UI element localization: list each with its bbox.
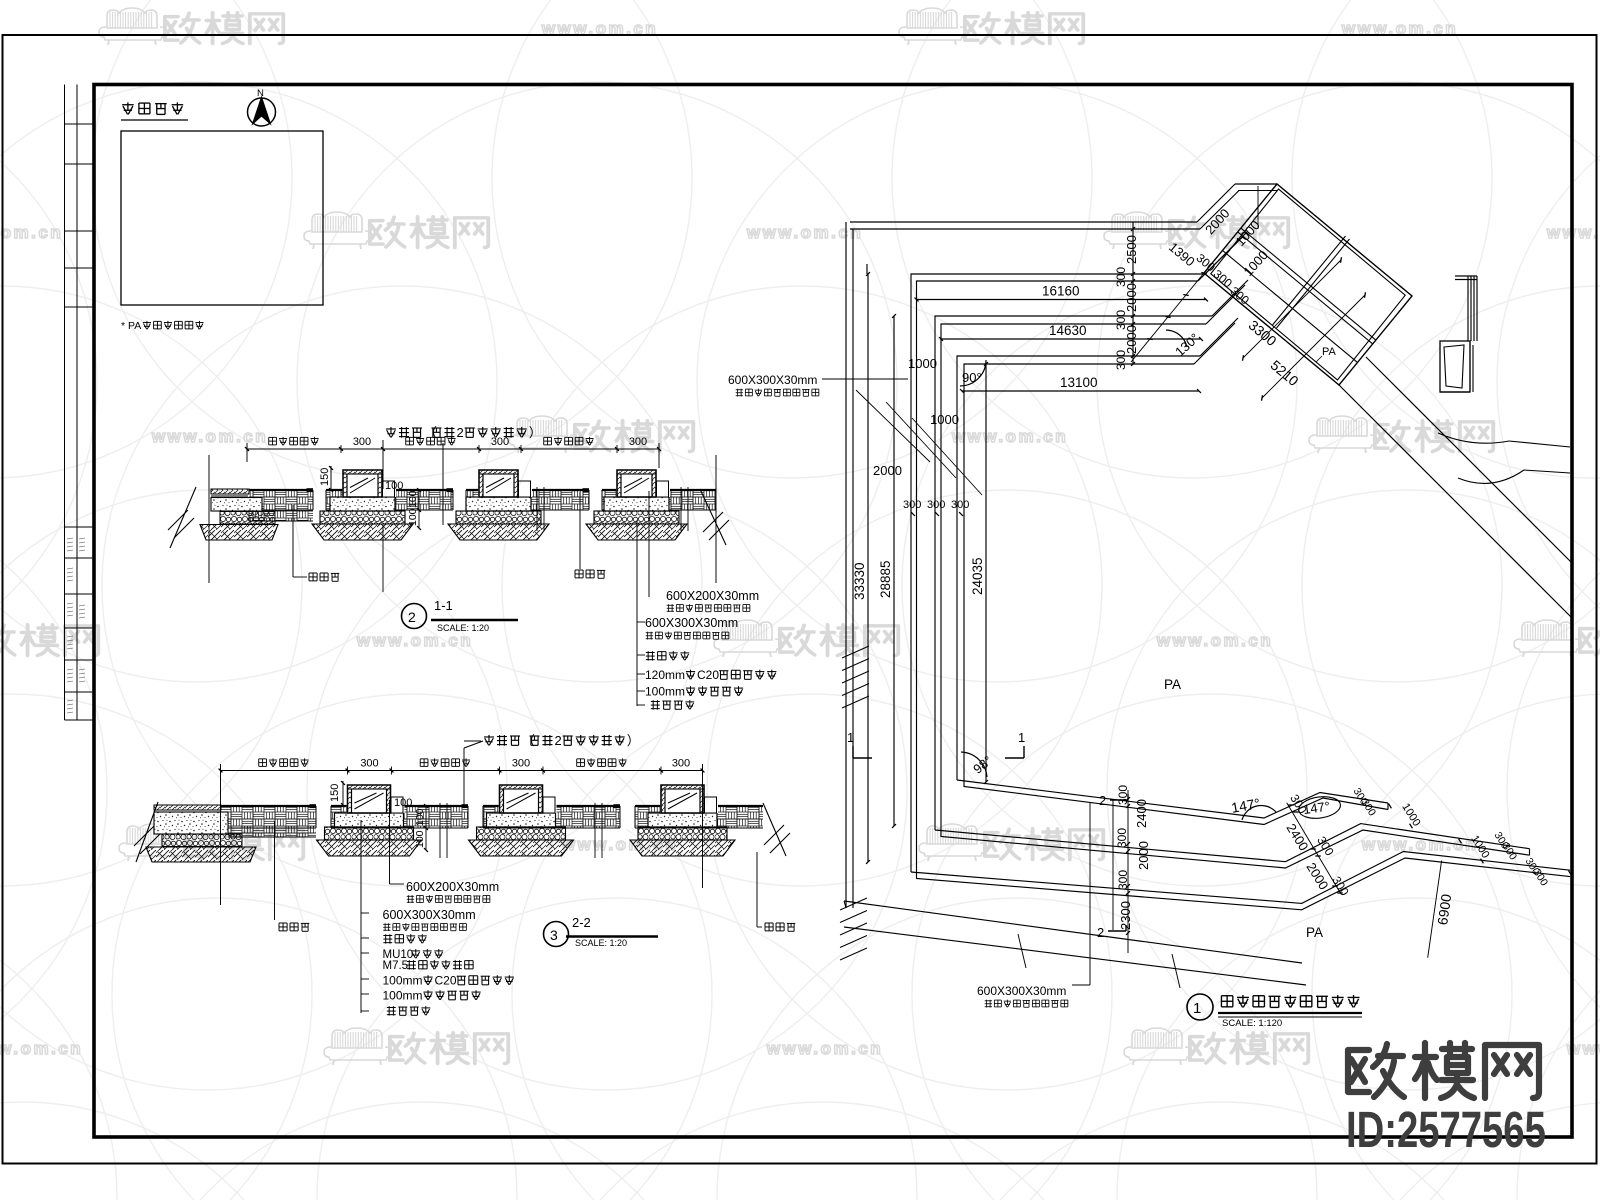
svg-text:300: 300 (1115, 828, 1129, 848)
svg-text:33330: 33330 (852, 562, 867, 600)
svg-text:2000: 2000 (1136, 841, 1151, 870)
svg-text:1: 1 (1018, 730, 1025, 745)
svg-text:28885: 28885 (878, 560, 893, 598)
svg-text:90°: 90° (962, 370, 982, 385)
svg-text:PA: PA (1322, 346, 1337, 358)
svg-text:300: 300 (951, 499, 969, 511)
svg-text:1: 1 (1193, 1000, 1201, 1017)
svg-text:1-1: 1-1 (434, 598, 453, 613)
svg-text:600X300X30mm: 600X300X30mm (383, 908, 476, 922)
svg-text:1: 1 (847, 730, 854, 745)
svg-text:100mm: 100mm (645, 685, 685, 699)
svg-text:2-2: 2-2 (572, 915, 591, 930)
svg-text:www.om.cn: www.om.cn (951, 427, 1068, 446)
svg-text:2: 2 (1097, 925, 1104, 940)
svg-text:300: 300 (1114, 350, 1128, 370)
svg-text:100mm: 100mm (383, 989, 423, 1003)
svg-text:150: 150 (329, 784, 341, 802)
svg-text:300: 300 (672, 758, 690, 770)
svg-text:300: 300 (360, 758, 378, 770)
svg-text:100: 100 (407, 508, 419, 526)
svg-text:100: 100 (385, 480, 403, 492)
svg-text:300: 300 (353, 436, 371, 448)
svg-text:www.om.cn: www.om.cn (151, 427, 268, 446)
svg-text:N: N (257, 88, 264, 99)
svg-text:2000: 2000 (873, 463, 902, 478)
svg-text:ID:2577565: ID:2577565 (1346, 1101, 1546, 1159)
svg-text:2: 2 (457, 425, 464, 440)
svg-text:300: 300 (1114, 310, 1128, 330)
svg-text:100: 100 (394, 797, 412, 809)
svg-text:600X300X30mm: 600X300X30mm (645, 616, 738, 630)
svg-text:www.om.cn: www.om.cn (1156, 631, 1273, 650)
svg-text:24035: 24035 (970, 557, 985, 595)
svg-text:100: 100 (414, 808, 426, 826)
svg-text:1000: 1000 (908, 356, 937, 371)
svg-text:SCALE: 1:20: SCALE: 1:20 (437, 623, 489, 633)
svg-text:www.om.cn: www.om.cn (356, 631, 473, 650)
svg-text:600X300X30mm: 600X300X30mm (728, 373, 817, 387)
svg-text:C20: C20 (697, 668, 719, 682)
svg-text:300: 300 (927, 499, 945, 511)
svg-text:100: 100 (414, 830, 426, 848)
svg-text:）: ） (529, 425, 542, 440)
svg-text:300: 300 (1116, 785, 1130, 805)
svg-text:300: 300 (512, 758, 530, 770)
svg-text:2: 2 (555, 733, 562, 748)
svg-text:300: 300 (903, 499, 921, 511)
svg-text:M7.5: M7.5 (383, 960, 409, 972)
svg-text:300: 300 (491, 436, 509, 448)
svg-text:2400: 2400 (1134, 799, 1149, 828)
svg-text:www.om.cn: www.om.cn (766, 1039, 883, 1058)
svg-text:150: 150 (319, 468, 331, 486)
svg-text:SCALE: 1:120: SCALE: 1:120 (1222, 1018, 1282, 1029)
svg-text:600X200X30mm: 600X200X30mm (666, 589, 759, 603)
svg-text:2: 2 (408, 609, 416, 625)
svg-text:www.om.cn: www.om.cn (0, 223, 63, 242)
svg-text:600X200X30mm: 600X200X30mm (406, 880, 499, 894)
svg-text:14630: 14630 (1049, 323, 1087, 338)
svg-text:www.om.cn: www.om.cn (0, 1039, 83, 1058)
svg-text:2300: 2300 (1118, 901, 1133, 930)
svg-text:600X300X30mm: 600X300X30mm (977, 984, 1066, 998)
svg-text:13100: 13100 (1060, 375, 1098, 390)
svg-text:SCALE: 1:20: SCALE: 1:20 (575, 938, 627, 948)
svg-text:3: 3 (550, 927, 558, 943)
svg-text:PA: PA (1164, 677, 1181, 692)
svg-text:PA: PA (1306, 925, 1323, 940)
svg-text:300: 300 (629, 436, 647, 448)
svg-text:2500: 2500 (1124, 235, 1139, 264)
svg-text:16160: 16160 (1042, 284, 1080, 299)
svg-text:* PA: * PA (121, 320, 141, 332)
svg-text:300: 300 (1114, 267, 1128, 287)
svg-text:120mm: 120mm (645, 668, 685, 682)
svg-text:100mm: 100mm (383, 974, 423, 988)
svg-text:100: 100 (407, 490, 419, 508)
svg-text:C20: C20 (435, 974, 457, 988)
svg-text:300: 300 (1116, 870, 1130, 890)
svg-text:）: ） (627, 733, 640, 748)
svg-text:2: 2 (1099, 793, 1106, 808)
svg-text:1000: 1000 (930, 412, 959, 427)
